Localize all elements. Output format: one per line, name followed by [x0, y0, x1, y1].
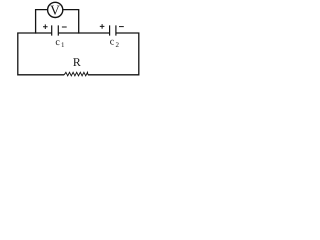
svg-text:1: 1 [61, 41, 65, 49]
svg-text:c: c [55, 37, 60, 48]
wire: top-left segment + left edge + bottom-left segment [18, 33, 64, 75]
minus sign of C1 [62, 26, 67, 28]
wire: top middle segment between C1 and C2 [58, 32, 109, 34]
wire: voltmeter right lead down to node between C1 and C2 [63, 10, 79, 34]
resistor R (zigzag) [64, 72, 88, 76]
plus sign of C2 [100, 24, 105, 29]
capacitor C2 (plates) [110, 25, 116, 35]
wire: voltmeter left lead down to node between C1 plus side [36, 10, 48, 34]
svg-text:R: R [73, 55, 81, 69]
voltmeter V (circle body) [48, 2, 63, 17]
plus sign of C1 [43, 24, 48, 29]
capacitor C1 (plates) [52, 25, 59, 35]
svg-text:c: c [110, 37, 115, 48]
svg-text:2: 2 [116, 41, 120, 49]
wire: top-right segment + right edge + bottom-right segment [88, 33, 139, 75]
svg-text:V: V [50, 2, 60, 17]
minus sign of C2 [119, 26, 124, 28]
